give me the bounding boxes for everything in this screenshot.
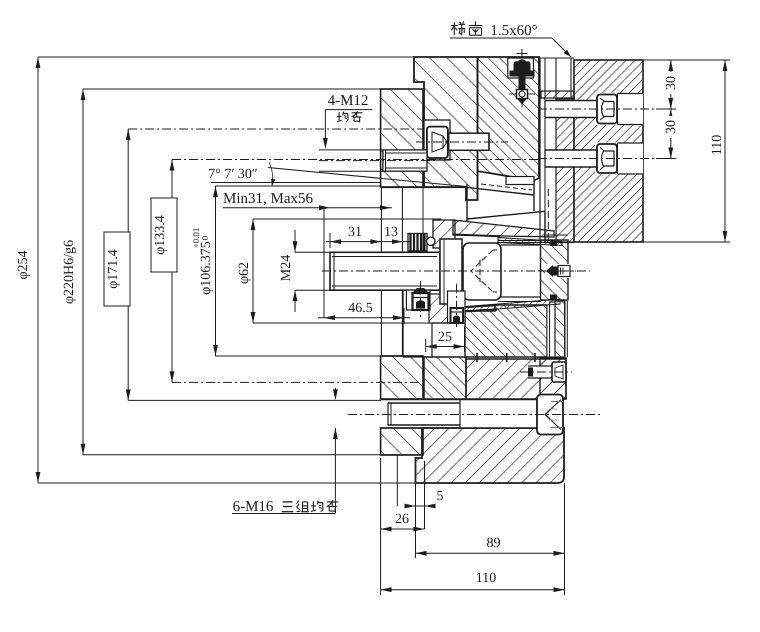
dim 26	[381, 512, 425, 531]
svg-text:φ133.4: φ133.4	[153, 215, 168, 255]
right ring lower	[540, 358, 566, 399]
svg-text:13: 13	[384, 225, 398, 240]
svg-text:φ220H6/g6: φ220H6/g6	[62, 240, 77, 304]
right ring upper	[541, 235, 569, 300]
svg-text:φ106.375: φ106.375	[199, 241, 214, 295]
left flange upper section	[381, 89, 423, 187]
label 6-M16	[232, 388, 338, 515]
main axis centerline	[322, 270, 590, 272]
svg-text:31: 31	[348, 225, 362, 240]
svg-text:46.5: 46.5	[348, 301, 373, 316]
svg-text:89: 89	[487, 536, 501, 551]
gland nut (dark)	[408, 234, 427, 252]
dim phi62	[237, 219, 255, 323]
svg-text:1.5x60°: 1.5x60°	[490, 23, 537, 39]
svg-text:25: 25	[438, 330, 452, 345]
thin shell strip	[460, 299, 560, 312]
svg-text:7° 7′ 30″: 7° 7′ 30″	[208, 167, 258, 182]
screw back-plate 1	[538, 93, 657, 125]
drawbar head	[463, 243, 501, 300]
dim phi220 extension lines	[83, 89, 422, 455]
tapped hole extension lines	[319, 150, 435, 171]
dim 30 upper	[643, 60, 730, 159]
clamp ring upper band	[466, 359, 566, 399]
label 4-M12	[323, 93, 372, 149]
dim phi133.4 extension lines	[172, 160, 540, 383]
cone sleeve band left end	[433, 220, 455, 248]
dim 89	[416, 536, 565, 556]
collet	[467, 177, 545, 243]
screw back-plate 2	[538, 143, 657, 175]
svg-text:φ254: φ254	[16, 250, 31, 279]
M12 head pocket	[424, 120, 450, 160]
dim phi106.375	[191, 186, 218, 356]
bore top edge	[381, 187, 466, 189]
set screw A	[406, 281, 430, 317]
svg-text:110: 110	[476, 571, 496, 586]
svg-text:4-M12: 4-M12	[328, 93, 369, 109]
tapped hole M12	[383, 150, 427, 171]
dim 30 lower	[663, 109, 679, 159]
set screw D (pin)	[541, 264, 576, 278]
dim 110 bottom	[381, 458, 565, 595]
dim 5	[397, 455, 443, 558]
drawbar bore	[498, 241, 541, 302]
dim phi254 extension lines	[38, 57, 415, 483]
cone sleeve band	[453, 220, 554, 237]
clamp ring lower band	[416, 428, 565, 483]
svg-text:M24: M24	[279, 255, 294, 281]
svg-text:30: 30	[664, 120, 679, 134]
bolt M16	[388, 395, 563, 435]
dim 110 right	[574, 60, 730, 242]
set screw C	[520, 362, 572, 382]
chuck body mid-left section	[429, 294, 451, 323]
shaft M24 end	[330, 252, 440, 290]
svg-text:26: 26	[395, 512, 409, 527]
sleeve front ring	[381, 187, 402, 356]
dim phi171.4 extension lines	[128, 129, 424, 400]
screw M12 cap	[427, 127, 489, 158]
chuck body lower section	[424, 357, 466, 399]
o-ring	[427, 237, 435, 245]
bolt hole lines	[381, 400, 537, 428]
dim phi133.4	[151, 160, 177, 383]
gap verticals	[548, 58, 571, 242]
svg-text:φ62: φ62	[237, 262, 252, 284]
dim 46.5	[318, 301, 410, 324]
dim phi106.375 extension lines	[216, 186, 382, 356]
svg-text:30: 30	[664, 76, 679, 90]
dim angle 7deg7min30sec	[208, 162, 466, 187]
right ring slot	[550, 302, 556, 357]
dim Min31 Max56	[223, 191, 392, 318]
svg-text:Min31, Max56: Min31, Max56	[223, 191, 314, 207]
svg-text:110: 110	[710, 135, 725, 155]
left flange lower section	[381, 356, 423, 455]
dim phi254	[16, 57, 40, 483]
svg-text:0: 0	[200, 235, 210, 240]
svg-text:6-M16: 6-M16	[233, 499, 274, 515]
dim phi62 extension lines	[253, 219, 441, 323]
cavity step lines	[403, 187, 464, 357]
comb teeth line	[540, 58, 574, 242]
top screw	[508, 49, 535, 108]
right back plate	[574, 60, 643, 242]
screw M12 centerline	[416, 141, 508, 143]
right ring strip	[555, 301, 567, 357]
chuck body upper-left section	[414, 57, 478, 200]
svg-text:5: 5	[437, 489, 444, 504]
set screw B	[448, 284, 466, 330]
dim M24	[279, 230, 330, 312]
shaft shoulder	[440, 239, 462, 304]
dim phi171.4	[104, 129, 131, 400]
bolt centerline	[348, 414, 600, 416]
comb plate strip	[556, 99, 574, 242]
spacer washer	[541, 91, 574, 98]
bearing block	[465, 305, 550, 362]
bore bottom edge	[381, 355, 423, 357]
dim 31 and 13	[326, 225, 410, 248]
svg-text:φ171.4: φ171.4	[106, 249, 121, 289]
label comb teeth 1.5x60	[450, 21, 571, 57]
dim 25	[426, 327, 465, 352]
dim phi220H6/g6	[62, 89, 85, 455]
thin shell strip upper	[497, 238, 574, 246]
chuck body upper-right section	[478, 57, 540, 200]
